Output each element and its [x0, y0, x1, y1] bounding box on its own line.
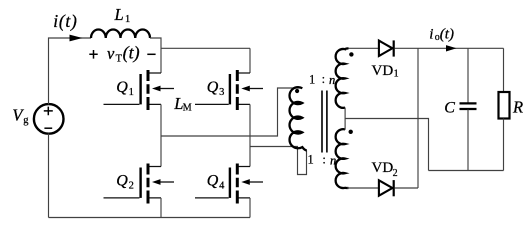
wire: right leg Q3 source to Q4 drain	[249, 104, 251, 166]
label io(t)	[429, 27, 454, 44]
svg-text:C: C	[444, 100, 455, 117]
inductor L1	[91, 30, 150, 39]
svg-text:v: v	[107, 44, 115, 63]
svg-text:1: 1	[309, 73, 315, 87]
svg-text:VD: VD	[372, 63, 394, 79]
label +vT(t)-	[89, 43, 155, 65]
resistor R	[499, 48, 510, 170]
transistor Q4	[195, 164, 263, 204]
wire: Q4 source down to bottom rail	[249, 198, 251, 218]
transistor Q3	[195, 70, 263, 110]
label Vg	[12, 106, 29, 127]
capacitor C	[460, 48, 477, 170]
label 1:n bottom	[308, 153, 337, 168]
voltage source Vg	[34, 104, 64, 134]
svg-text:(t): (t)	[440, 27, 454, 43]
transformer core	[322, 91, 327, 153]
svg-text:Q: Q	[116, 79, 128, 96]
svg-text:2: 2	[393, 168, 398, 179]
wire: Vg bottom down to bottom rail	[48, 134, 50, 218]
transistor Q1	[104, 70, 175, 110]
wire: VD1 cathode along top output rail	[395, 47, 504, 49]
wire: Vg top up and right to inductor	[49, 38, 92, 105]
label L1	[114, 5, 131, 25]
wire: right-leg midpoint to primary bottom (jog)	[250, 147, 307, 175]
wire: VD2 branch vertical from top rail down	[417, 48, 419, 188]
svg-text:Q: Q	[207, 172, 219, 189]
wire: bridge top rail	[161, 47, 250, 49]
wire: inductor to bridge top-left corner	[150, 38, 161, 73]
svg-text:Q: Q	[207, 79, 219, 96]
svg-text:1: 1	[129, 87, 134, 98]
wire: center tap to output bottom	[345, 119, 428, 171]
svg-text:T: T	[116, 54, 123, 65]
wire: left-leg midpoint to primary top	[161, 88, 302, 136]
svg-text:(t): (t)	[123, 43, 140, 64]
wire: left leg Q1 source to Q2 drain	[160, 104, 162, 166]
svg-text:n: n	[329, 73, 335, 87]
svg-text:4: 4	[219, 181, 225, 192]
svg-text:i(t): i(t)	[53, 11, 77, 31]
svg-text::: :	[322, 153, 325, 167]
wire: bottom rail	[49, 217, 251, 219]
svg-text:2: 2	[129, 181, 134, 192]
wire: VD2 cathode to vertical riser	[395, 187, 419, 189]
svg-text:i: i	[429, 27, 433, 43]
svg-text:3: 3	[219, 87, 224, 98]
transistor Q2	[104, 164, 175, 204]
secondary bottom polarity dot	[349, 130, 353, 134]
label LM	[173, 94, 192, 114]
transformer primary winding	[290, 87, 307, 150]
diode VD1	[379, 40, 394, 56]
wire: top rail down to Q3 drain	[249, 48, 251, 73]
svg-text:g: g	[23, 115, 29, 126]
label Q2	[116, 172, 134, 191]
svg-text::: :	[322, 72, 325, 86]
svg-text:M: M	[183, 103, 192, 114]
wire: output bottom rail	[429, 170, 504, 172]
current arrow i(t)	[70, 35, 83, 42]
svg-text:1: 1	[125, 14, 130, 25]
secondary top polarity dot	[349, 52, 353, 56]
svg-text:VD: VD	[372, 160, 394, 176]
label 1:n top	[309, 72, 335, 87]
primary polarity dot	[295, 89, 299, 93]
svg-text:1: 1	[394, 69, 399, 80]
wire: secondary top to VD1 anode	[347, 47, 379, 49]
svg-text:L: L	[114, 5, 124, 24]
label VD2	[372, 160, 398, 179]
current arrow io(t)	[446, 45, 457, 51]
wire: secondary center tap vertical	[344, 108, 346, 130]
label Q4	[207, 172, 225, 191]
svg-text:Q: Q	[116, 172, 128, 189]
label Q3	[207, 79, 225, 98]
transformer secondary top winding	[336, 48, 349, 107]
transformer secondary bottom winding	[336, 129, 349, 188]
diode VD2	[379, 180, 394, 196]
label Q1	[116, 79, 134, 98]
wire: Q2 source down to bottom rail	[160, 198, 162, 218]
svg-text:1: 1	[308, 153, 314, 167]
wire: secondary bottom to VD2 anode	[347, 187, 379, 189]
svg-text:R: R	[512, 97, 523, 116]
label VD1	[372, 63, 399, 80]
